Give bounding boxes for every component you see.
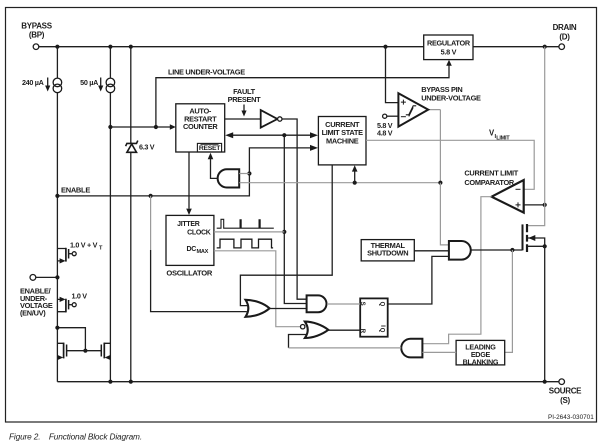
svg-text:SHUTDOWN: SHUTDOWN	[367, 249, 408, 258]
label FAULT PRESENT with arrow	[228, 87, 262, 117]
reset input box (RESET with overline)	[197, 143, 221, 152]
wire bypass-UV output net (gray) to reset AND bottom input	[239, 110, 440, 183]
svg-text:RESET: RESET	[199, 145, 221, 152]
and gate U-S (set AND)	[307, 295, 327, 312]
svg-text:BLANKING: BLANKING	[463, 357, 499, 366]
transistor Q1 sense FET 1.0V+VT	[57, 241, 103, 264]
wire enable net	[55, 145, 318, 198]
wire line under-voltage net	[110, 62, 449, 127]
svg-text:(D): (D)	[559, 33, 570, 42]
svg-text:6.3 V: 6.3 V	[139, 143, 155, 152]
or gate U-NOR (reset OR w/ bubble)	[301, 322, 329, 338]
svg-text:UNDER-VOLTAGE: UNDER-VOLTAGE	[421, 93, 481, 102]
svg-text:PRESENT: PRESENT	[228, 95, 262, 104]
wire counter/state-machine shared net y=135	[233, 134, 311, 136]
wire inverter output down to AND input	[282, 119, 307, 299]
and gate U-LEB-AND (points left)	[401, 339, 422, 358]
node SOURCE (S) terminal and rail	[57, 379, 582, 405]
oscillator box	[166, 215, 214, 277]
svg-text:240 µA: 240 µA	[22, 78, 44, 87]
svg-text:COMPARATOR: COMPARATOR	[464, 178, 515, 187]
latch U-SR flip-flop	[359, 298, 388, 336]
arrow into auto-restart counter	[170, 124, 176, 130]
current limit state machine box	[318, 117, 366, 165]
wire third BP column down (zener branch)	[130, 47, 132, 382]
svg-text:SOURCE: SOURCE	[549, 387, 582, 396]
and gate U-RST (reset AND, points left)	[218, 169, 240, 187]
svg-text:(BP): (BP)	[29, 31, 45, 40]
svg-text:MAX: MAX	[197, 249, 209, 255]
wire lower AND output (gray) to feedback	[289, 347, 402, 349]
svg-text:DRAIN: DRAIN	[553, 23, 577, 32]
svg-text:COUNTER: COUNTER	[183, 122, 218, 131]
transistor Q-PWR output MOSFET	[523, 224, 547, 252]
svg-text:Q: Q	[379, 302, 385, 307]
transistor Q4 mirror right	[101, 343, 110, 361]
zener diode VZ 6.3V	[126, 141, 155, 153]
op-amp U-CL current limit comparator	[464, 169, 523, 213]
thermal shutdown box	[361, 240, 414, 261]
wire CL comparator + input from drain sense	[524, 204, 545, 206]
wire reset AND output to RESET pin	[211, 159, 218, 179]
wire 240uA rail down left column	[56, 93, 58, 382]
arrow into regulator bottom	[446, 60, 452, 66]
wire NOR output to latch R	[328, 329, 360, 331]
wire state machine bottom output down-left to OR gate	[240, 165, 332, 306]
svg-text:1.0 V + V: 1.0 V + V	[70, 241, 98, 250]
svg-text:(S): (S)	[560, 396, 570, 405]
svg-text:OSCILLATOR: OSCILLATOR	[166, 268, 212, 277]
svg-text:(EN/UV): (EN/UV)	[20, 308, 46, 317]
wire clock output (gray)	[214, 231, 284, 233]
transistor Q2 sense FET 1.0V	[57, 291, 87, 312]
wire AND output to MOSFET gate	[471, 249, 522, 251]
transistor Q3 mirror left	[57, 343, 66, 361]
wire BP rail branch down to bypass-UV comparator	[386, 47, 399, 103]
wire MOSFET source down to source rail	[544, 246, 546, 381]
DCmax waveform	[217, 239, 273, 248]
wire gate node down to LEB (gray)	[505, 250, 513, 352]
current source I2 50 uA	[80, 47, 115, 93]
wire current mirror diode connection	[57, 328, 85, 351]
svg-text:CURRENT LIMIT: CURRENT LIMIT	[464, 169, 518, 178]
wire 50uA rail down	[109, 93, 111, 382]
auto-restart counter box	[176, 104, 225, 152]
svg-text:BYPASS: BYPASS	[21, 22, 52, 31]
svg-text:MACHINE: MACHINE	[326, 136, 359, 145]
svg-text:5.8 V: 5.8 V	[441, 47, 457, 56]
wire blanking feedback into NOR bottom input	[289, 335, 308, 348]
svg-text:LIMIT: LIMIT	[496, 136, 510, 142]
wire CL comparator output staircase to lower AND	[422, 197, 491, 344]
leading edge blanking box	[456, 340, 505, 366]
svg-text:50 µA: 50 µA	[80, 78, 98, 87]
wire counter to buffer	[225, 118, 261, 120]
svg-text:4.8 V: 4.8 V	[377, 129, 393, 138]
svg-text:1.0 V: 1.0 V	[72, 291, 88, 300]
node DRAIN (D) terminal	[553, 23, 577, 50]
node junction dots on BP rail	[55, 45, 59, 49]
regulator U-REG box 5.8V	[424, 35, 473, 60]
svg-text:CLOCK: CLOCK	[187, 230, 211, 237]
wire set AND output to latch S (gray)	[327, 303, 360, 305]
wire latch Q to AND input	[388, 256, 449, 304]
svg-text:PI-2643-030701: PI-2643-030701	[548, 414, 594, 421]
inverter U-INV fault buffer	[261, 110, 282, 128]
svg-text:ENABLE: ENABLE	[61, 185, 90, 194]
wire clock column down	[284, 135, 306, 303]
wire enable-dot column down to OR gate input	[150, 196, 152, 250]
wire OR output to set AND input	[270, 308, 307, 310]
wire counter bottom to oscillator	[188, 152, 190, 209]
svg-text:LINE UNDER-VOLTAGE: LINE UNDER-VOLTAGE	[168, 68, 245, 77]
wire reset AND top input (gray)	[239, 173, 249, 175]
node 5.8/4.8V reference input	[377, 114, 398, 137]
current source I1 240 uA	[22, 47, 62, 93]
wire Vilimit (gray)	[366, 140, 534, 189]
node ENABLE/UNDER-VOLTAGE (EN/UV) terminal	[20, 275, 60, 318]
wire bypass-UV output down to thermal AND	[440, 183, 449, 245]
wire thermal shutdown to AND	[414, 250, 449, 252]
jitter waveform	[217, 219, 274, 228]
wire drain sense column (gray)	[528, 47, 545, 226]
svg-text:Q: Q	[379, 328, 385, 333]
svg-text:Figure 2.: Figure 2.	[9, 432, 40, 442]
label VILIMIT	[489, 129, 510, 142]
svg-text:Functional Block Diagram.: Functional Block Diagram.	[49, 432, 142, 442]
svg-text:JITTER: JITTER	[177, 221, 200, 228]
op-amp U-BPUV bypass pin under-voltage comparator	[398, 85, 481, 127]
wire DCmax output (gray) down to NOR input	[214, 251, 301, 327]
svg-text:DC: DC	[186, 246, 196, 253]
wire LEB to lower AND input (gray)	[422, 351, 456, 353]
node BYPASS (BP) terminal	[21, 22, 52, 50]
or gate U-OR (enable OR)	[246, 300, 270, 317]
svg-text:REGULATOR: REGULATOR	[427, 38, 471, 47]
wire mirror gate line	[67, 350, 102, 352]
wire BP rail top	[39, 46, 559, 48]
caption Figure 2	[9, 432, 142, 442]
and gate U-DRV (gate drive AND)	[449, 241, 471, 260]
wire branch up into state machine bottom	[354, 171, 356, 183]
